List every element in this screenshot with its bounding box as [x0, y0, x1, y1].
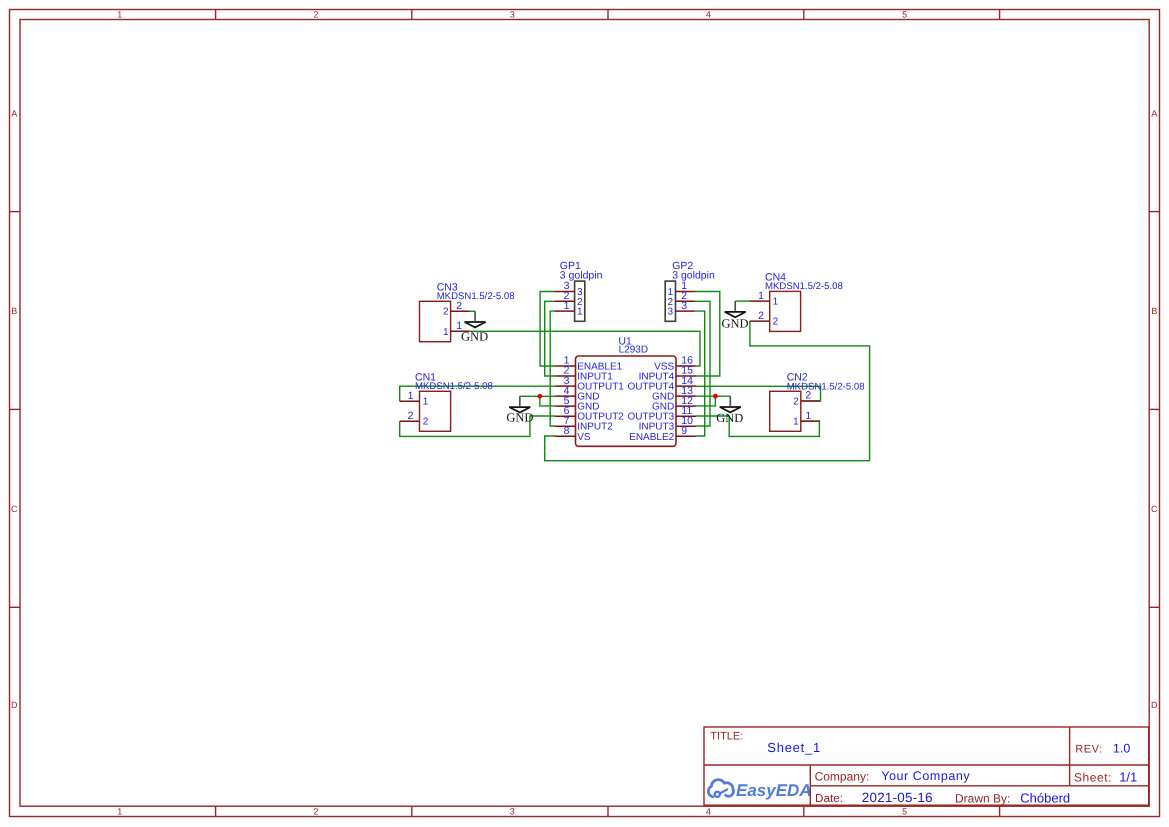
- svg-text:2: 2: [805, 390, 811, 402]
- ground CN3 GND: [461, 311, 488, 343]
- svg-text:3: 3: [510, 9, 515, 19]
- svg-text:A: A: [1151, 108, 1157, 118]
- pin CN1.1: [400, 400, 420, 402]
- svg-text:B: B: [11, 306, 17, 316]
- svg-text:3: 3: [681, 300, 687, 312]
- wire GP2.3 to U1.9: [695, 311, 705, 436]
- wire CN3.2 to GND: [470, 310, 475, 312]
- svg-text:1: 1: [773, 297, 779, 308]
- pin U1.2: [555, 375, 576, 377]
- svg-text:5: 5: [902, 806, 907, 816]
- svg-text:1: 1: [793, 417, 799, 428]
- svg-text:3 goldpin: 3 goldpin: [672, 270, 715, 282]
- pin CN2.1: [801, 420, 820, 422]
- title block: [704, 727, 1149, 805]
- svg-text:Company:: Company:: [815, 769, 870, 783]
- svg-text:2: 2: [793, 397, 799, 408]
- pin U1.3: [555, 385, 576, 387]
- wire GP1.1 to U1.7: [550, 311, 555, 426]
- svg-text:8: 8: [564, 425, 570, 437]
- svg-text:C: C: [1151, 504, 1158, 514]
- wire GP2.2 to U1.10: [695, 301, 710, 426]
- pin U1.6: [555, 415, 576, 417]
- pin U1.1: [555, 365, 576, 367]
- svg-text:Date:: Date:: [815, 792, 843, 805]
- svg-text:Drawn By:: Drawn By:: [955, 791, 1010, 805]
- connector CN2 MKDSN1.5/2-5.08: [770, 391, 801, 431]
- ground U1 pins 12-13 GND: [716, 396, 743, 425]
- svg-text:VS: VS: [577, 432, 591, 443]
- svg-text:1: 1: [577, 307, 583, 318]
- pin CN4.2: [750, 320, 770, 322]
- svg-text:1: 1: [408, 390, 414, 402]
- ground CN4 GND: [721, 301, 748, 330]
- svg-text:2: 2: [456, 300, 462, 312]
- svg-text:1: 1: [805, 410, 811, 422]
- pin CN3.2: [451, 310, 470, 312]
- svg-text:Sheet_1: Sheet_1: [767, 740, 821, 755]
- svg-text:Your Company: Your Company: [881, 769, 970, 783]
- wire GP2.1 to U1.15: [695, 292, 720, 377]
- svg-text:A: A: [11, 108, 17, 118]
- svg-text:MKDSN1.5/2-5.08: MKDSN1.5/2-5.08: [437, 291, 515, 302]
- EasyEDA logo cloud icon: [708, 780, 733, 797]
- wire GP1.3 to U1.1: [540, 292, 555, 367]
- svg-text:C: C: [11, 504, 18, 514]
- svg-text:1: 1: [117, 806, 122, 816]
- pin U1.7: [555, 425, 576, 427]
- connector CN4 MKDSN1.5/2-5.08: [770, 291, 801, 331]
- pin GP1.1: [555, 310, 575, 312]
- svg-text:D: D: [1151, 700, 1158, 710]
- wire U1.14 OUTPUT4 to CN2.2: [696, 386, 820, 401]
- wire CN1.1 to U1.3 OUTPUT1: [400, 386, 555, 401]
- svg-text:4: 4: [706, 9, 711, 19]
- wire junction jog to U1.12: [696, 396, 715, 406]
- junction left GND node: [537, 394, 542, 399]
- svg-text:MKDSN1.5/2-5.08: MKDSN1.5/2-5.08: [415, 381, 493, 392]
- svg-text:MKDSN1.5/2-5.08: MKDSN1.5/2-5.08: [787, 381, 865, 392]
- svg-text:2: 2: [773, 317, 779, 328]
- wire junction jog to U1.5: [540, 396, 555, 406]
- pin GP1.2: [555, 300, 575, 302]
- connector GP1 3 goldpin: [575, 281, 585, 321]
- svg-text:4: 4: [706, 806, 711, 816]
- svg-text:1: 1: [758, 290, 764, 302]
- pin U1.5: [555, 405, 576, 407]
- svg-text:ENABLE2: ENABLE2: [629, 432, 674, 443]
- pin U1.11: [676, 415, 696, 417]
- pin U1.15: [676, 375, 696, 377]
- svg-text:L293D: L293D: [619, 344, 648, 355]
- pin U1.12: [676, 405, 696, 407]
- pin GP2.3: [676, 310, 695, 312]
- wire CN4.1 to GND: [735, 300, 750, 302]
- wire U1.13 to GND right: [696, 395, 730, 397]
- svg-text:1: 1: [564, 300, 570, 312]
- svg-text:Chóberd: Chóberd: [1020, 791, 1070, 806]
- svg-text:MKDSN1.5/2-5.08: MKDSN1.5/2-5.08: [765, 281, 843, 292]
- wire U1.11 OUTPUT3 to CN2.1: [696, 416, 819, 436]
- pin U1.13: [676, 395, 696, 397]
- pin CN3.1: [451, 330, 470, 332]
- pin GP1.3: [555, 291, 575, 293]
- connector CN1 MKDSN1.5/2-5.08: [420, 391, 451, 431]
- pin U1.10: [676, 425, 696, 427]
- svg-text:2: 2: [313, 806, 318, 816]
- svg-text:TITLE:: TITLE:: [710, 731, 743, 743]
- wire net VS U1.8 to CN4.2: [545, 321, 870, 461]
- pin U1.8: [555, 435, 576, 437]
- op-amp U1 L293D motor driver: [576, 356, 677, 446]
- svg-text:2: 2: [313, 9, 318, 19]
- svg-text:GND: GND: [716, 411, 743, 425]
- svg-text:2021-05-16: 2021-05-16: [862, 790, 933, 805]
- ground U1 pins 4-5 GND: [506, 396, 533, 424]
- svg-text:D: D: [11, 700, 18, 710]
- svg-text:2: 2: [758, 310, 764, 322]
- svg-text:1.0: 1.0: [1113, 742, 1130, 756]
- pin U1.16: [676, 365, 696, 367]
- pin GP2.2: [676, 300, 695, 302]
- svg-text:9: 9: [681, 425, 687, 437]
- svg-text:2: 2: [408, 410, 414, 422]
- svg-text:GND: GND: [506, 411, 533, 425]
- svg-text:5: 5: [902, 9, 907, 19]
- pin CN4.1: [750, 300, 770, 302]
- svg-text:GND: GND: [721, 316, 748, 330]
- pin U1.14: [676, 385, 696, 387]
- svg-text:2: 2: [423, 417, 429, 428]
- svg-text:1: 1: [443, 327, 449, 338]
- svg-text:EasyEDA: EasyEDA: [736, 781, 812, 800]
- svg-text:Sheet:: Sheet:: [1074, 771, 1112, 785]
- svg-text:3: 3: [510, 806, 515, 816]
- svg-text:B: B: [1151, 306, 1157, 316]
- svg-text:GND: GND: [461, 330, 488, 344]
- pin U1.9: [676, 435, 696, 437]
- pin U1.4: [555, 395, 576, 397]
- svg-text:2: 2: [443, 307, 449, 318]
- connector CN3 MKDSN1.5/2-5.08: [420, 301, 451, 341]
- wire GP1.2 to U1.2: [545, 301, 555, 376]
- svg-text:1/1: 1/1: [1119, 770, 1137, 785]
- pin CN1.2: [400, 420, 420, 422]
- wire GND to U1.4: [520, 395, 555, 397]
- wire net VSS CN3.1 to U1.16: [470, 331, 700, 366]
- svg-text:1: 1: [117, 9, 122, 19]
- svg-text:1: 1: [423, 397, 429, 408]
- svg-text:3: 3: [668, 307, 674, 318]
- svg-text:REV:: REV:: [1075, 744, 1102, 756]
- pin CN2.2: [801, 400, 820, 402]
- wire CN1.2 to U1.6 OUTPUT2: [400, 416, 555, 436]
- pin GP2.1: [676, 291, 695, 293]
- connector GP2 3 goldpin: [665, 281, 675, 321]
- junction right GND node: [713, 394, 718, 399]
